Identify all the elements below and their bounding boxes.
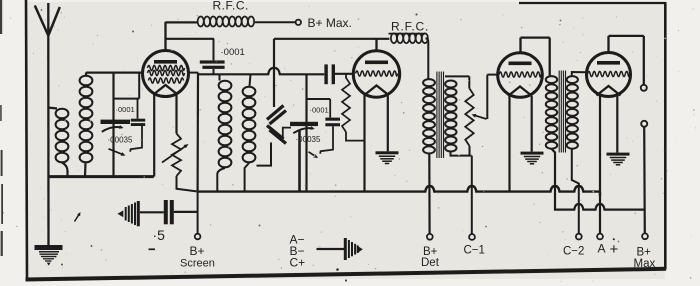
wire L2 top lead bbox=[85, 73, 87, 77]
wire B+Max bus with hops bbox=[555, 204, 645, 210]
scan edge smudge left bbox=[0, 0, 3, 256]
value label .5 (C7) bbox=[153, 227, 166, 243]
svg-text:·5: ·5 bbox=[153, 227, 166, 243]
tube V4 output bbox=[587, 53, 631, 97]
wire stage-1 ground bus bbox=[48, 175, 154, 178]
connector cable symbol (right) bbox=[344, 238, 363, 260]
variable capacitor C4 .00035 stator bar bbox=[290, 122, 318, 126]
wire L1 bottom lead bbox=[62, 163, 68, 178]
svg-text:B+ Max.: B+ Max. bbox=[308, 16, 352, 30]
label R.F.C. (1) bbox=[213, 0, 249, 12]
label A+ bbox=[598, 238, 619, 258]
grid leak R1 bbox=[342, 74, 365, 141]
arrow C4 adjustment bbox=[309, 152, 319, 158]
variable capacitor C4 rotor arc bbox=[293, 126, 315, 133]
wire V2 left filament leg bbox=[363, 95, 365, 192]
wire bus corner to A+ drop bbox=[599, 192, 601, 196]
svg-text:R.F.C.: R.F.C. bbox=[213, 0, 249, 12]
wire L2 bottom lead bbox=[84, 163, 87, 178]
wire output jack 2 to B+Max bbox=[643, 127, 646, 234]
svg-text:·00035: ·00035 bbox=[108, 136, 133, 145]
label B+ (screen) bbox=[190, 244, 205, 258]
terminal C-1 bbox=[469, 234, 475, 240]
svg-text:R.F.C.: R.F.C. bbox=[391, 20, 429, 34]
wire T4 secondary bottom to C-2 bbox=[572, 149, 579, 234]
wire plate line V2 bbox=[274, 38, 390, 40]
value label .0001 (C3) bbox=[221, 47, 245, 58]
wire V1 plate lead bbox=[164, 22, 166, 51]
wire V4 left filament leg (A+) bbox=[599, 96, 601, 234]
coil T3 primary (AF) bbox=[423, 79, 435, 153]
wire T3 secondary bottom bbox=[451, 152, 472, 156]
wire connector to C7 bbox=[140, 211, 164, 213]
svg-text:C+: C+ bbox=[290, 256, 306, 270]
variable capacitor C1 rotor arc bbox=[102, 125, 124, 132]
wire T4 primary bottom bbox=[552, 149, 556, 208]
coil T2 primary (RF) bbox=[217, 74, 231, 191]
border frame right bbox=[664, 3, 667, 270]
terminal A+ bbox=[597, 234, 603, 240]
label Det bbox=[421, 257, 440, 269]
svg-text:C−1: C−1 bbox=[464, 245, 485, 257]
wire C-1 drop bbox=[471, 156, 473, 235]
coil T2 secondary (RF) bbox=[243, 74, 256, 191]
terminal output jack 2 bbox=[641, 121, 647, 127]
terminal B+ Det bbox=[427, 234, 433, 240]
wire CN to C4 bar bbox=[283, 128, 291, 139]
wire neutralizing tap bbox=[273, 39, 275, 107]
value label .0001 (C5) bbox=[310, 106, 329, 115]
wire main bus (filament return) with hops bbox=[198, 186, 600, 192]
label B- bbox=[290, 244, 305, 258]
value label .00035 (C4) bbox=[296, 135, 321, 144]
coil L1 antenna primary bbox=[56, 109, 69, 163]
arrow R2 wiper bbox=[472, 114, 487, 119]
wire antenna tap to L1 bbox=[48, 108, 58, 109]
label Screen bbox=[180, 257, 215, 269]
terminal B+ Max (bottom) bbox=[642, 233, 648, 239]
connector cable symbol (left) bbox=[118, 201, 140, 226]
tube V1 RF amplifier bbox=[143, 51, 189, 97]
wire T4 secondary top to V4 grid bbox=[572, 72, 587, 76]
capacitor C3 .0001 coupling bbox=[200, 39, 225, 75]
border frame top bbox=[519, 2, 666, 4]
RF choke RFC2 bbox=[389, 33, 429, 78]
wire V2 plate lead bbox=[375, 39, 377, 51]
wire rotor return bbox=[298, 131, 301, 192]
svg-text:+: + bbox=[610, 241, 619, 258]
wire V1 plate branch bbox=[166, 38, 214, 40]
label C+ bbox=[290, 256, 306, 270]
coil T3 secondary (AF) bbox=[445, 81, 456, 152]
coil T4 secondary (AF) bbox=[567, 76, 578, 149]
svg-text:Screen: Screen bbox=[180, 257, 215, 269]
wire T3 primary bottom to B+Det bbox=[428, 154, 431, 235]
neutralizing capacitor CN bbox=[267, 106, 286, 144]
wire RFC1 to B+ terminal bbox=[255, 21, 295, 23]
label C-2 bbox=[563, 246, 584, 258]
wire CN to secondary bottom bbox=[257, 143, 272, 166]
wire V1 screen stub bbox=[188, 72, 198, 74]
wire V3 plate lead bbox=[521, 38, 550, 76]
svg-text:·00035: ·00035 bbox=[296, 135, 321, 144]
coil T4 primary (AF) bbox=[546, 76, 557, 149]
label B+ Max. bbox=[308, 16, 352, 30]
wire V3 left filament leg bbox=[508, 96, 510, 192]
wire V1 left filament leg bbox=[153, 95, 155, 177]
annotation arrow bbox=[75, 212, 81, 222]
wire V4 plate lead bbox=[609, 36, 644, 85]
core T4 bbox=[559, 71, 565, 153]
label R.F.C. (2) bbox=[391, 20, 429, 34]
wire tuned-circuit-1 rail bbox=[112, 73, 114, 177]
capacitor C5 .0001 (tuned ckt 2) bbox=[320, 99, 340, 154]
tube V3 first audio bbox=[498, 53, 543, 98]
wire battery cable lead bbox=[317, 248, 345, 250]
core T3 bbox=[437, 72, 444, 159]
ground earth (V4 filament) bbox=[607, 153, 630, 165]
wire grid lead V1 bbox=[86, 71, 143, 73]
wire interstage grid line with hop bbox=[198, 68, 325, 75]
wire V1 right filament leg bbox=[175, 95, 177, 134]
svg-text:Max: Max bbox=[634, 258, 656, 270]
RF choke RFC1 bbox=[198, 17, 255, 27]
label B+ (det) bbox=[423, 246, 438, 258]
capacitor C2 .0001 (tuned ckt 1) bbox=[130, 99, 145, 152]
terminal C-2 bbox=[576, 234, 582, 240]
capacitor C7 .5 bypass bbox=[164, 200, 174, 224]
wire tuned-circuit-2 rail bbox=[305, 74, 307, 191]
potentiometer R2 volume bbox=[465, 76, 473, 155]
wire wiper to V3 grid bbox=[487, 75, 498, 119]
ground earth (V2 filament) bbox=[376, 151, 399, 163]
wire V3 right filament leg bbox=[531, 96, 533, 152]
wire V1 plate to RFC bbox=[166, 21, 199, 23]
border frame left bbox=[26, 0, 27, 280]
value label .0001 (C2) bbox=[116, 105, 135, 114]
tube V2 detector bbox=[353, 51, 399, 97]
terminal B+ Screen bbox=[195, 234, 201, 240]
arrow R3 adjustment bbox=[162, 144, 189, 163]
svg-text:B+: B+ bbox=[637, 247, 652, 259]
wire screen/B+screen drop bbox=[197, 73, 200, 192]
wire stub rail to C2 bbox=[114, 74, 140, 99]
wire stub rail to C5 bbox=[307, 98, 331, 100]
wire V2 right filament leg bbox=[387, 95, 389, 151]
wire T3 secondary top bbox=[445, 75, 469, 77]
terminal output jack 1 bbox=[641, 85, 647, 91]
variable capacitor C1 .00035 stator bar bbox=[101, 120, 131, 124]
value label .00035 (C1) bbox=[108, 136, 133, 145]
arrow C1 adjustment bbox=[109, 149, 126, 156]
label B+ (max) bbox=[637, 247, 652, 259]
border frame bottom bbox=[26, 269, 667, 280]
svg-text:A: A bbox=[598, 242, 606, 256]
wire B+Screen terminal drop bbox=[197, 192, 199, 234]
svg-text:·0001: ·0001 bbox=[221, 47, 245, 58]
svg-text:·0001: ·0001 bbox=[116, 105, 135, 114]
grid condenser C6 bbox=[324, 64, 353, 84]
label minus bbox=[149, 248, 156, 250]
rheostat R3 filament bbox=[172, 134, 197, 192]
svg-text:C−2: C−2 bbox=[563, 246, 584, 258]
svg-text:B+: B+ bbox=[190, 244, 205, 258]
wire C7 to B+Screen drop bbox=[174, 211, 198, 213]
antenna bbox=[35, 3, 60, 36]
label A- bbox=[290, 232, 305, 246]
wire V4 right filament leg bbox=[616, 96, 618, 153]
terminal B+ (top) bbox=[296, 20, 301, 25]
svg-text:Det: Det bbox=[421, 257, 440, 269]
wire antenna down-lead bbox=[47, 35, 50, 245]
coil L2 secondary bbox=[80, 76, 93, 163]
label Max bbox=[634, 258, 656, 270]
ground earth (V3 filament) bbox=[521, 152, 544, 164]
ground earth (antenna) bbox=[35, 245, 63, 266]
label C-1 bbox=[464, 245, 485, 257]
svg-text:·0001: ·0001 bbox=[310, 106, 329, 115]
